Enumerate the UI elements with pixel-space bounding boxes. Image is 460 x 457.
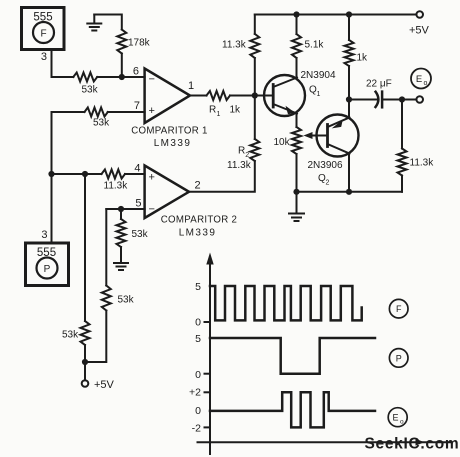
node A junction	[48, 171, 54, 177]
svg-text:LM339: LM339	[179, 228, 217, 239]
svg-text:+2: +2	[189, 387, 201, 399]
svg-text:F: F	[396, 304, 402, 314]
svg-text:0: 0	[195, 405, 201, 417]
wire 10k to bottom rail	[296, 154, 298, 192]
node: rail/1k junction	[346, 11, 352, 17]
transistor Q1 2N3904	[264, 58, 336, 127]
capacitor 22uF	[349, 79, 402, 108]
svg-text:1k: 1k	[230, 105, 242, 116]
resistor 53k (pin6 input)	[73, 73, 98, 96]
svg-text:4: 4	[134, 163, 140, 175]
wire 178k to node	[121, 54, 123, 78]
node D: cap/11.3k/output	[399, 96, 405, 102]
svg-text:LM339: LM339	[154, 138, 192, 149]
svg-text:1: 1	[317, 91, 321, 98]
transistor Q2 2N3906	[308, 115, 359, 187]
resistor 178k	[117, 30, 150, 54]
svg-text:+5V: +5V	[409, 25, 430, 37]
svg-text:53k: 53k	[82, 85, 99, 96]
svg-text:2: 2	[195, 180, 201, 192]
svg-text:5: 5	[135, 198, 141, 210]
resistor R1 1k	[207, 91, 242, 118]
waveform F trace	[210, 286, 362, 320]
svg-text:+: +	[149, 105, 155, 117]
svg-text:-2: -2	[192, 423, 201, 435]
resistor 11.3k (rail to node B)	[222, 15, 259, 96]
wire R1 to node B	[230, 95, 255, 97]
svg-text:7: 7	[134, 100, 140, 112]
node: 10k/ground junction	[293, 189, 299, 195]
wire ground to 178k	[94, 15, 122, 30]
svg-text:11.3k: 11.3k	[410, 158, 435, 169]
axis tick +2	[205, 391, 211, 393]
wire pin7 to 53k	[108, 111, 145, 113]
svg-text:178k: 178k	[128, 38, 151, 49]
+5V terminal	[409, 11, 430, 36]
svg-text:E: E	[392, 413, 398, 423]
svg-text:E: E	[416, 74, 422, 85]
ground (top)	[87, 15, 101, 31]
svg-text:R: R	[209, 105, 216, 116]
wire Q2 base wiper arrow to 10k	[304, 132, 328, 139]
node: rail/5.1k junction	[293, 11, 299, 17]
waveform axis horizontal	[198, 439, 453, 446]
resistor 5.1k	[292, 15, 324, 59]
bottom rail wire	[297, 191, 403, 193]
svg-text:−: −	[149, 204, 155, 216]
wire Q2 collector down	[348, 154, 350, 192]
svg-text:−: −	[149, 74, 155, 86]
svg-text:1k: 1k	[357, 53, 369, 64]
resistor 53k (node E divider)	[62, 321, 90, 345]
svg-text:2N3906: 2N3906	[308, 160, 343, 171]
axis tick P 0	[205, 373, 211, 375]
waveform label circle F	[389, 299, 408, 318]
waveform label circle P	[389, 349, 408, 368]
svg-text:0: 0	[195, 369, 201, 381]
svg-text:10k: 10k	[274, 137, 291, 148]
+5V rail wire	[255, 14, 417, 16]
svg-text:+: +	[149, 172, 155, 184]
svg-text:P: P	[44, 264, 51, 275]
svg-text:2N3904: 2N3904	[301, 70, 336, 81]
resistor 53k (pin5 to ground)	[117, 209, 149, 263]
svg-text:0: 0	[195, 317, 201, 329]
resistor R2 11.3k	[189, 96, 259, 192]
node F junction (pin5/53k gnd)	[118, 206, 124, 212]
node E junction (divider tap)	[82, 171, 88, 177]
node G: +5V junction	[84, 345, 86, 362]
wire 555F pin3 to 53k	[52, 50, 74, 78]
svg-text:53k: 53k	[93, 118, 110, 129]
svg-text:3: 3	[41, 51, 47, 63]
node C: 1k/cap/Q2 emitter	[346, 96, 352, 102]
wire pin5 left	[106, 208, 144, 210]
resistor 11.3k (pin4)	[102, 170, 129, 192]
555 timer F	[22, 8, 65, 50]
svg-text:o: o	[424, 80, 428, 87]
output terminal	[402, 99, 416, 101]
svg-text:11.3k: 11.3k	[104, 181, 129, 192]
node Eo label circle	[411, 69, 431, 89]
wire 53k to pin6	[97, 76, 144, 78]
svg-text:SeekIC.com: SeekIC.com	[365, 436, 460, 453]
node: junction pin6/53k/178k	[119, 74, 125, 80]
svg-text:53k: 53k	[62, 330, 79, 341]
waveform axis vertical	[206, 253, 213, 455]
svg-text:555: 555	[33, 12, 52, 24]
svg-text:11.3k: 11.3k	[222, 40, 247, 51]
svg-text:5.1k: 5.1k	[305, 40, 325, 51]
wire comp1 output to R1	[190, 95, 207, 97]
waveform Eo trace	[210, 392, 375, 427]
ground (pin5 53k)	[114, 263, 128, 270]
ground (emitter rail)	[289, 192, 304, 221]
svg-text:F: F	[40, 29, 46, 40]
svg-text:1: 1	[188, 80, 194, 92]
wire 11.3k to node A	[52, 173, 102, 175]
wire Q2 emitter to 1k node	[348, 100, 350, 118]
wire 53k to node A	[52, 112, 85, 174]
op-amp U1 COMPARITOR 1 LM339	[131, 69, 207, 150]
svg-text:o: o	[400, 419, 404, 426]
wire 53k to +5V node	[85, 311, 106, 363]
wire node E down	[84, 174, 86, 321]
svg-text:COMPARITOR 1: COMPARITOR 1	[131, 126, 207, 137]
op-amp U2 COMPARITOR 2 LM339	[145, 166, 238, 239]
svg-text:555: 555	[37, 247, 56, 259]
node: Q2 collector junction	[346, 189, 352, 195]
wire pin5 branch down	[105, 209, 107, 286]
resistor 1k (Q2 emitter load)	[345, 15, 369, 100]
resistor 53k (pin7 input)	[85, 108, 111, 129]
wire pin4 to 11.3k	[125, 173, 145, 175]
svg-text:COMPARITOR 2: COMPARITOR 2	[161, 215, 237, 226]
svg-text:6: 6	[133, 66, 139, 78]
resistor 11.3k (output)	[398, 100, 435, 192]
node B: junction R1/Q1 base/11.3k/R2	[252, 92, 258, 98]
svg-text:22 μF: 22 μF	[366, 79, 392, 90]
waveform P trace	[210, 338, 375, 374]
+5V terminal (bottom)	[82, 362, 115, 391]
axis tick -2	[205, 426, 211, 428]
axis tick F 0	[205, 321, 211, 323]
svg-text:+5V: +5V	[94, 379, 115, 391]
svg-text:1: 1	[217, 111, 221, 118]
wire node A to 555 P	[51, 174, 53, 243]
svg-text:3: 3	[41, 229, 47, 241]
wire node B to Q1 base	[255, 95, 273, 97]
svg-text:53k: 53k	[132, 229, 149, 240]
svg-text:P: P	[396, 353, 402, 363]
svg-text:2: 2	[245, 152, 249, 159]
resistor 10k	[274, 127, 302, 154]
svg-text:5: 5	[195, 333, 201, 345]
555 timer P	[26, 243, 69, 286]
svg-text:5: 5	[195, 281, 201, 293]
waveform label circle Eo	[388, 408, 407, 427]
svg-text:11.3k: 11.3k	[227, 160, 252, 171]
svg-text:53k: 53k	[118, 295, 135, 306]
svg-text:R: R	[238, 146, 245, 157]
svg-text:2: 2	[326, 180, 330, 187]
resistor 53k (pin5 divider)	[102, 286, 135, 311]
